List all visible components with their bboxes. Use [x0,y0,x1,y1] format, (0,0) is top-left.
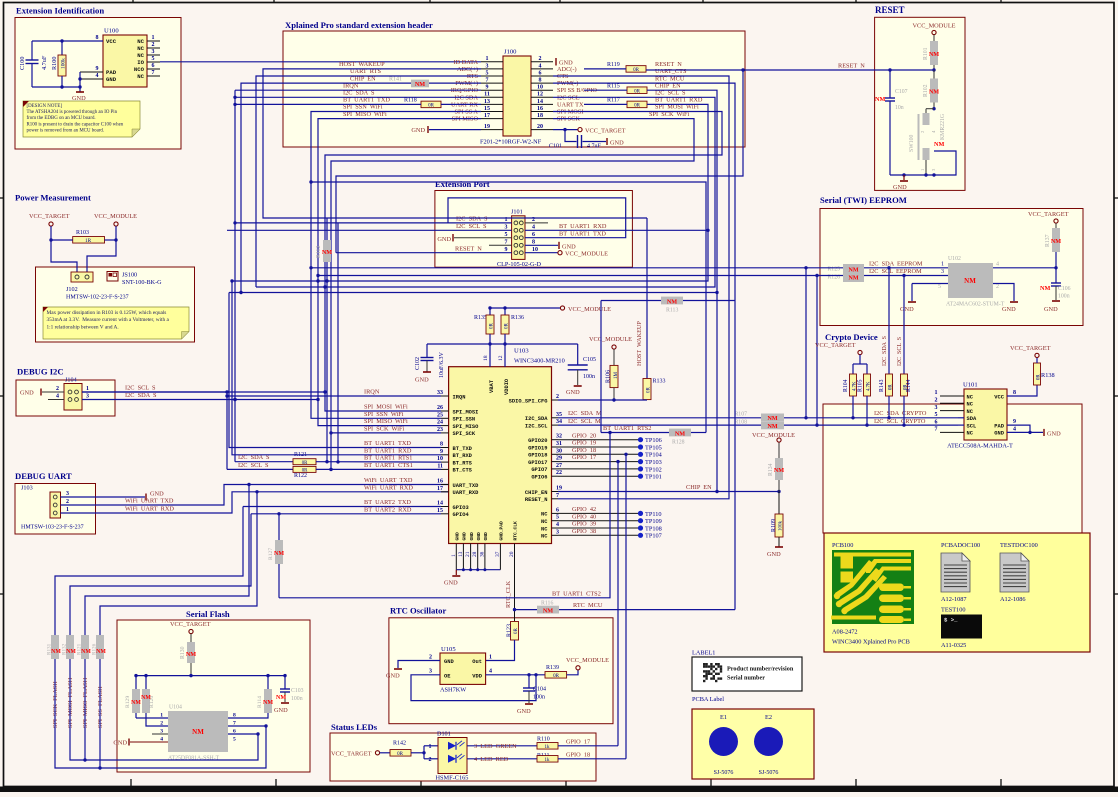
resistor R143 0R [888,268,890,374]
resistor R132 NM flash SPI MOSI FLASH [66,635,74,659]
svg-text:GPIO 38: GPIO 38 [572,528,596,535]
svg-text:C102: C102 [415,357,421,370]
svg-text:SDA: SDA [967,416,977,422]
svg-text:RESET N: RESET N [455,245,482,252]
U101 pin 5 SDA stub [958,417,964,419]
capacitor C103 NM 100n [284,676,286,689]
svg-text:AT24MAC602-STUM-T: AT24MAC602-STUM-T [946,302,1005,308]
svg-text:2: 2 [556,394,559,400]
resistor R121 0R [293,459,316,465]
svg-text:NM: NM [51,649,61,655]
svg-text:0R: 0R [633,68,640,73]
svg-text:4: 4 [489,669,492,675]
svg-text:UART_RXD: UART_RXD [453,490,480,496]
ground GND reset [903,175,905,180]
svg-text:J103: J103 [21,485,33,492]
svg-text:GND: GND [113,740,127,747]
wire CHIP_EN right run [647,90,717,491]
svg-text:GND: GND [767,551,781,558]
svg-text:TP102: TP102 [645,466,662,473]
wire GND rail U100 [32,86,80,88]
svg-text:R133: R133 [653,379,666,385]
svg-text:NM: NM [274,551,284,557]
svg-text:VCC: VCC [106,38,117,45]
svg-text:32: 32 [556,434,562,440]
svg-text:5: 5 [938,284,941,290]
U103 pin VDDIO 12 [504,340,506,367]
U101 pin 8 VCC wire [1007,385,1037,396]
led D101 HSMF-C165 [438,738,467,774]
svg-text:I2C_SDA: I2C_SDA [525,416,548,422]
U100 pin 2 stub [147,47,160,49]
U103 pin SPI_SCK 23 [441,432,449,434]
svg-text:JS100: JS100 [122,272,137,279]
svg-text:D101: D101 [437,731,451,738]
svg-text:Xplained Pro standard extensio: Xplained Pro standard extension header [285,20,433,30]
svg-text:NM: NM [848,267,858,274]
svg-text:NM: NM [929,51,939,58]
frame zone ticks top [132,0,134,3]
svg-text:R110: R110 [537,736,550,742]
svg-text:R113: R113 [666,308,678,314]
svg-text:1k: 1k [545,758,551,763]
svg-text:C105: C105 [583,357,596,363]
U103 pin BT_CTS 11 [441,468,449,470]
svg-text:1: 1 [935,390,938,396]
U103 pin I2C_SDA 35 [552,417,559,419]
svg-text:Serial Flash: Serial Flash [186,609,230,619]
resistor R109 100k [778,492,780,515]
svg-text:31: 31 [556,441,562,447]
svg-text:3: 3 [941,269,944,275]
svg-text:7: 7 [505,240,508,246]
svg-text:Product number/revision: Product number/revision [727,666,794,673]
svg-text:NC: NC [967,402,974,408]
svg-text:5: 5 [233,737,236,743]
svg-text:R100: R100 [51,57,58,70]
resistor R123 0R [511,622,519,641]
svg-text:GPIO 20: GPIO 20 [572,432,596,439]
svg-text:16: 16 [537,106,543,112]
wire pm to J102 [51,240,77,273]
svg-text:VCC_MODULE: VCC_MODULE [94,213,137,220]
svg-text:GND: GND [415,377,429,384]
svg-text:VCC_MODULE: VCC_MODULE [568,306,611,313]
wire SPI_SCK_FLASH [55,507,243,636]
testpoint TP106 [558,439,638,441]
U103 pin GPIO20 32 [552,439,559,441]
testpoint TP104 [558,453,638,455]
svg-text:23: 23 [437,427,443,433]
svg-text:Serial number: Serial number [727,675,765,682]
svg-text:TEST100: TEST100 [941,607,966,614]
svg-text:R104: R104 [843,379,849,392]
svg-text:TP108: TP108 [645,525,662,532]
svg-text:BT UART1 TXD: BT UART1 TXD [364,440,411,447]
svg-text:SPI MISO WiFi: SPI MISO WiFi [364,418,408,425]
U103 pin GPIO3 14 [441,506,449,508]
svg-text:18: 18 [483,355,489,361]
J100 pin 12 [531,96,553,98]
svg-text:NM: NM [767,423,777,430]
net GPIO_18 wire [558,758,626,760]
svg-text:U103: U103 [514,348,529,355]
svg-text:0R: 0R [553,674,560,679]
svg-text:BT_RTS: BT_RTS [453,460,473,466]
svg-text:10: 10 [537,85,543,91]
svg-text:I2C SDA S: I2C SDA S [456,215,488,222]
svg-text:GND: GND [386,673,400,680]
svg-text:SJ-5076: SJ-5076 [714,770,734,776]
svg-text:2: 2 [429,757,432,763]
svg-text:5: 5 [505,232,508,238]
wire eeprom scl vertical [816,276,818,426]
svg-text:28: 28 [472,551,478,557]
U103 pin UART_RXD 17 [441,491,449,493]
svg-text:11: 11 [437,463,443,469]
svg-text:R116: R116 [541,600,553,606]
svg-text:R141: R141 [389,77,402,83]
svg-text:2: 2 [539,56,542,62]
svg-text:5: 5 [556,515,559,521]
svg-text:14: 14 [437,501,443,507]
svg-text:NC: NC [967,394,974,400]
svg-text:SDIO_SPI_CFG: SDIO_SPI_CFG [509,398,548,404]
svg-text:NCO: NCO [134,66,145,73]
svg-text:VCC_MODULE: VCC_MODULE [589,336,632,343]
U103 pin SPI_MISO 24 [441,425,449,427]
svg-text:SPI_SSN: SPI_SSN [453,417,476,423]
U101 pin 4 GND wire [1007,431,1043,433]
net LED_RED wire [467,758,537,760]
svg-text:CLP-105-02-G-D: CLP-105-02-G-D [497,261,542,268]
power VCC_MODULE J101 pin10 [525,252,558,254]
svg-text:BT_CTS: BT_CTS [453,468,473,474]
wire SPI_SS_FLASH [100,492,257,635]
wire R142 to D101 [411,752,424,754]
svg-text:GPIO17: GPIO17 [528,460,547,466]
svg-text:RESET_N: RESET_N [525,497,548,503]
U100 pin 5 stub [147,61,160,63]
svg-text:I2C SCL M: I2C SCL M [568,418,601,425]
svg-text:$ >_: $ >_ [944,617,958,624]
svg-text:Status LEDs: Status LEDs [331,722,378,732]
svg-text:WINC3400-MR210: WINC3400-MR210 [514,358,565,365]
svg-text:100n: 100n [291,696,303,702]
U101 pin 1 stub [940,395,964,397]
svg-text:R128: R128 [672,440,685,446]
svg-text:2: 2 [66,499,69,505]
resistor R128 NM [669,429,691,437]
J100 pin 7 [481,82,503,84]
wire UART_RTS run [256,76,481,287]
svg-text:R142: R142 [393,740,406,746]
svg-text:3: 3 [486,63,489,69]
svg-text:SPI SCK WiFi: SPI SCK WiFi [364,426,404,433]
svg-text:1: 1 [86,386,89,392]
svg-text:22: 22 [556,470,562,476]
svg-text:R118: R118 [404,98,417,104]
svg-text:UART_TXD: UART_TXD [453,483,480,489]
svg-text:353mA at 3.3V. Measure curren: 353mA at 3.3V. Measure current with a Vo… [47,317,170,323]
svg-text:17: 17 [437,486,443,492]
svg-text:RTC MCU: RTC MCU [573,602,603,609]
svg-text:BT UART1 TXD: BT UART1 TXD [559,230,606,237]
svg-text:4: 4 [996,261,999,267]
svg-text:U102: U102 [948,256,961,262]
U103 pin SPI_SSN 25 [441,417,449,419]
svg-text:NM: NM [131,700,141,706]
svg-text:NM: NM [1051,238,1061,245]
svg-text:SCL: SCL [967,423,977,429]
resistor R129 NM [135,676,137,689]
svg-text:WINC3400 Xplained Pro PCB: WINC3400 Xplained Pro PCB [832,639,910,646]
wire GPIO17 vertical [617,462,619,746]
svg-text:R132: R132 [62,643,68,655]
U103 pin CHIP_EN 19 [552,491,559,493]
wire U105 GND pin2 [398,661,440,669]
svg-text:GND: GND [562,243,576,250]
svg-text:IO: IO [137,59,144,66]
resistor R112 NM [326,218,328,240]
wire CHIP_EN left run [241,83,411,292]
wire flash vcc rail [136,675,285,677]
capacitor C107 NM 10n [889,70,891,98]
svg-text:7: 7 [556,493,559,499]
svg-text:LABEL1: LABEL1 [692,650,715,657]
svg-text:NM: NM [415,81,425,88]
svg-text:GPIO19: GPIO19 [528,445,547,451]
testpoint TP107 [558,534,638,536]
svg-text:GPIO 18: GPIO 18 [566,751,590,758]
net I2C_SDA_CRYPTO wire [784,417,958,419]
svg-text:0R: 0R [397,752,404,757]
svg-text:TP104: TP104 [645,452,663,459]
svg-text:SPI_MISO: SPI_MISO [453,424,480,430]
svg-text:R107: R107 [734,412,747,418]
svg-text:GND: GND [483,532,489,541]
resistor R106 1M [613,349,615,365]
block solder jumpers E1 E2 [692,709,814,779]
svg-text:U105: U105 [441,646,456,653]
ground GND U102 pin5 [908,301,916,303]
wire J101 loop [448,198,626,238]
J100 pin 5 [481,75,503,77]
svg-text:U101: U101 [963,382,978,389]
svg-text:A12-1087: A12-1087 [941,596,967,603]
qr code [703,663,722,682]
svg-text:NM: NM [875,96,885,103]
svg-text:1M: 1M [614,372,619,380]
svg-text:GND: GND [893,184,907,191]
resistor R122 0R [293,466,316,472]
svg-text:TP109: TP109 [645,518,662,525]
svg-text:34: 34 [556,419,562,425]
svg-text:1: 1 [152,35,155,41]
U103 pin BT_TXD 8 [441,447,449,449]
svg-text:GND: GND [444,580,458,587]
svg-text:19: 19 [556,486,562,492]
svg-text:R122: R122 [294,473,307,479]
svg-text:1: 1 [66,507,69,513]
J100 pin 1 [481,61,503,63]
svg-text:WiFi UART RXD: WiFi UART RXD [364,484,413,491]
svg-text:4: 4 [96,73,99,79]
U101 pin 3 stub [940,410,964,412]
svg-text:3: 3 [86,394,89,400]
svg-text:HOST WAKEUP: HOST WAKEUP [636,321,643,366]
svg-text:[DESIGN NOTE]: [DESIGN NOTE] [27,104,63,109]
svg-text:6: 6 [935,419,938,425]
svg-text:power is removed from an MCU b: power is removed from an MCU board. [27,128,105,133]
J100 pin 11 [481,96,503,98]
wire I2C_SCL_S to J101 [329,468,332,471]
wire VCC U100 [32,40,103,42]
svg-text:3: 3 [556,529,559,535]
svg-text:R108: R108 [734,419,747,425]
svg-text:17: 17 [484,113,490,119]
svg-text:20: 20 [509,551,515,557]
svg-text:NC: NC [137,52,144,59]
resistor R113 NM [661,297,683,305]
testpoint TP110 [558,512,638,514]
resistor R101 NM [930,41,938,65]
svg-text:NM: NM [667,298,677,305]
svg-text:0R: 0R [889,384,894,390]
svg-text:C106: C106 [1058,286,1071,292]
svg-text:WiFi UART RXD: WiFi UART RXD [125,506,174,513]
svg-text:NM: NM [675,430,685,437]
ground GND U100 [76,91,84,93]
U104 pin7 wire [228,725,266,727]
svg-text:Extension Identification: Extension Identification [16,6,104,16]
svg-text:3 LED GREEN: 3 LED GREEN [474,743,517,750]
svg-text:13: 13 [484,99,490,105]
svg-text:0R: 0R [302,469,308,474]
svg-text:0R: 0R [1036,374,1041,380]
svg-text:BT UART1 RXD: BT UART1 RXD [559,223,607,230]
svg-text:I2C SCL EEPROM: I2C SCL EEPROM [869,268,922,275]
svg-text:C101: C101 [549,144,562,150]
svg-text:11: 11 [484,92,490,98]
U103 pin GPIO17 29 [552,461,559,463]
U104 pin1 wire [136,717,168,719]
svg-text:RTC_CLK: RTC_CLK [513,521,519,541]
U103 pin BT_RXD 9 [441,454,449,456]
svg-text:NM: NM [848,275,858,282]
svg-text:I2C_SCL: I2C_SCL [525,423,548,429]
svg-text:GND: GND [455,532,461,541]
svg-text:3: 3 [935,405,938,411]
svg-text:BT_RXD: BT_RXD [453,453,473,459]
svg-text:HMTSW-102-23-F-S-237: HMTSW-102-23-F-S-237 [66,295,129,301]
svg-text:4: 4 [539,63,542,69]
svg-text:I2C SCL S: I2C SCL S [456,223,487,230]
power VCC_MODULE R106 [612,345,616,349]
svg-text:NC: NC [137,38,144,45]
svg-text:4: 4 [56,394,59,400]
ground GND C104 [525,703,533,705]
svg-text:BT UART1 RTS2: BT UART1 RTS2 [603,425,651,432]
connector J102 [71,272,93,282]
svg-text:10uF/6.3V: 10uF/6.3V [439,351,445,378]
svg-text:J104: J104 [65,377,77,384]
svg-text:ASH7KW: ASH7KW [440,687,466,694]
svg-text:4.7uF: 4.7uF [41,55,48,70]
svg-text:A08-2472: A08-2472 [832,629,858,636]
ground GND U105 [394,668,402,670]
J100 pin 3 [481,68,503,70]
U103 pin UART_TXD 16 [441,484,449,486]
svg-text:NM: NM [276,695,286,701]
svg-text:R105: R105 [858,379,864,392]
svg-text:2: 2 [56,386,59,392]
J100 pin 16 [531,111,553,113]
svg-text:NC: NC [541,519,548,525]
U103 pin IRQN 33 [441,395,449,397]
svg-text:GND: GND [517,708,531,715]
U101 pin 7 stub [940,431,964,433]
U103 pin GPIO19 31 [552,446,559,448]
svg-text:5: 5 [152,56,155,62]
resistor R120 NM [145,676,147,689]
svg-text:SNT-100-BK-G: SNT-100-BK-G [122,279,162,286]
svg-text:E2: E2 [765,714,772,721]
svg-text:IRQN: IRQN [364,388,380,395]
svg-text:GND: GND [274,707,288,714]
svg-text:13: 13 [458,551,464,557]
svg-text:Serial (TWI) EEPROM: Serial (TWI) EEPROM [820,195,907,205]
svg-text:35: 35 [556,412,562,418]
resistor R126 NM flash SPI SS FLASH [96,635,104,659]
svg-text:4 LED RED: 4 LED RED [474,756,509,763]
resistor R131 NM flash SPI SCK FLASH [51,635,59,659]
svg-text:1: 1 [451,554,457,557]
svg-text:BT UART1 RTS1: BT UART1 RTS1 [364,454,412,461]
U103 pin SDIO_SPI_CFG 2 [552,399,559,401]
svg-text:U104: U104 [169,705,182,711]
svg-text:R136: R136 [511,315,524,321]
svg-text:NC: NC [541,512,548,518]
J100 pin 10 [531,89,553,91]
svg-text:VCC_MODULE: VCC_MODULE [566,657,609,664]
resistor R138 0R [1034,363,1041,385]
svg-text:ATECC508A-MAHDA-T: ATECC508A-MAHDA-T [947,443,1013,450]
U103 pin GPIO7 27 [552,468,559,470]
svg-text:NM: NM [934,141,944,148]
ground GND C106 [1052,300,1060,302]
wire SPI_SSN run [311,112,481,419]
svg-text:J100: J100 [504,49,517,56]
svg-text:9: 9 [440,449,443,455]
svg-text:NC: NC [137,73,144,80]
wire I2C_SDA_S run [235,96,481,98]
testpoint TP101 [558,475,638,477]
testpoint TP109 [558,520,638,522]
svg-text:7: 7 [935,427,938,433]
svg-text:0R: 0R [514,628,519,635]
svg-text:GND: GND [106,76,117,83]
svg-text:OE: OE [444,673,451,679]
svg-text:1: 1 [941,261,944,267]
svg-text:NM: NM [186,651,196,658]
wire SW100 right leg [890,151,956,175]
svg-text:1: 1 [486,56,489,62]
svg-text:HSMF-C165: HSMF-C165 [436,775,469,782]
net I2C_SCL_CRYPTO wire [784,424,958,426]
svg-text:0R: 0R [904,384,909,390]
U103 pin NC 6 [552,512,559,514]
